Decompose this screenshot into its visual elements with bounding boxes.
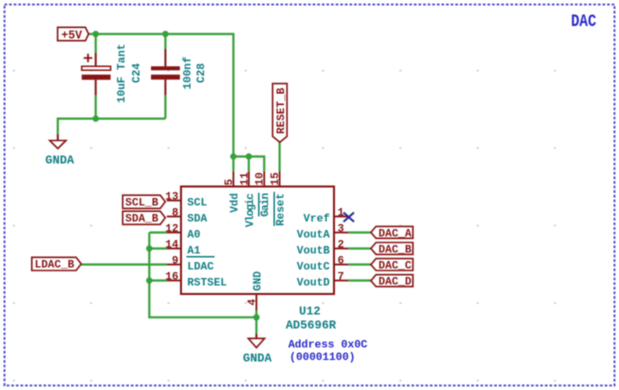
svg-text:12: 12 xyxy=(165,224,178,236)
svg-text:14: 14 xyxy=(165,240,179,252)
wire RESET_B to pin15 xyxy=(279,142,281,172)
svg-text:C24: C24 xyxy=(132,63,144,83)
svg-text:15: 15 xyxy=(270,172,282,186)
svg-text:A1: A1 xyxy=(187,246,201,258)
svg-text:16: 16 xyxy=(165,272,178,284)
svg-text:6: 6 xyxy=(338,256,345,268)
svg-text:SCL: SCL xyxy=(187,198,207,210)
capacitor C28 xyxy=(151,49,208,95)
svg-text:GNDA: GNDA xyxy=(45,154,75,168)
svg-text:Vlogic: Vlogic xyxy=(245,194,257,228)
svg-text:SDA: SDA xyxy=(187,214,207,226)
pin 11 Vlogic xyxy=(239,171,256,227)
grid dots xyxy=(13,70,556,382)
svg-text:4: 4 xyxy=(247,299,259,306)
pin 13 SCL xyxy=(165,192,207,210)
svg-text:VoutA: VoutA xyxy=(297,230,330,242)
ground GNDA bottom xyxy=(243,334,273,366)
wire LDAC_B to pin9 xyxy=(81,263,167,265)
svg-text:9: 9 xyxy=(172,256,179,268)
svg-text:DAC: DAC xyxy=(571,12,597,32)
svg-text:RESET_B: RESET_B xyxy=(276,87,288,134)
junction RSTSEL xyxy=(146,277,152,283)
wire ground rail xyxy=(58,119,166,135)
pin 15 Reset (active low) xyxy=(270,171,288,226)
pin 1 Vref xyxy=(303,208,348,226)
global label DAC_B xyxy=(371,243,413,257)
global label RESET_B xyxy=(273,84,288,143)
svg-text:(00001100): (00001100) xyxy=(289,352,355,364)
pin 5 Vdd xyxy=(224,171,241,213)
wire RSTSEL xyxy=(149,279,167,281)
wire VoutA to DAC_A xyxy=(348,231,371,233)
wire A0 xyxy=(149,231,167,233)
svg-text:13: 13 xyxy=(165,192,179,204)
svg-text:Address 0x0C: Address 0x0C xyxy=(288,340,368,352)
svg-text:GND: GND xyxy=(252,271,264,291)
svg-text:GNDA: GNDA xyxy=(243,352,273,366)
junction C28 top xyxy=(162,31,168,37)
svg-text:VoutB: VoutB xyxy=(297,246,330,258)
svg-text:C28: C28 xyxy=(196,63,208,83)
svg-text:AD5696R: AD5696R xyxy=(286,319,337,333)
svg-text:10: 10 xyxy=(255,172,267,185)
svg-text:8: 8 xyxy=(172,208,179,220)
junction GND pin4 xyxy=(253,314,259,320)
pin 8 SDA xyxy=(167,208,208,226)
pin 12 A0 xyxy=(165,224,200,242)
wire C24 bottom lead xyxy=(95,95,97,119)
pin 6 VoutC xyxy=(297,256,349,274)
svg-text:DAC_B: DAC_B xyxy=(379,244,412,256)
svg-text:Vdd: Vdd xyxy=(229,193,241,213)
svg-text:LDAC: LDAC xyxy=(187,262,214,274)
svg-text:VoutD: VoutD xyxy=(297,278,330,290)
global label DAC_D xyxy=(371,275,413,289)
wire top pins rail xyxy=(233,157,264,172)
svg-text:DAC_C: DAC_C xyxy=(379,261,412,273)
junction A1 xyxy=(146,245,152,251)
capacitor C24 xyxy=(82,44,144,103)
svg-text:LDAC_B: LDAC_B xyxy=(35,260,75,272)
svg-text:SCL_B: SCL_B xyxy=(125,198,158,210)
pin 4 GND xyxy=(247,271,265,310)
junction pin5 rail xyxy=(230,153,236,159)
svg-text:3: 3 xyxy=(338,224,345,236)
global label DAC_A xyxy=(371,226,413,240)
svg-text:Vref: Vref xyxy=(303,214,330,226)
power flag +5V xyxy=(58,27,89,42)
global label LDAC_B xyxy=(32,257,81,271)
global label SDA_B xyxy=(123,211,166,225)
pin 16 RSTSEL xyxy=(165,272,227,290)
svg-text:U12: U12 xyxy=(299,305,321,319)
svg-text:100nf: 100nf xyxy=(183,56,195,89)
wire C28 bottom lead xyxy=(164,95,166,119)
junction C24 bottom xyxy=(93,115,99,121)
svg-text:Gain: Gain xyxy=(260,193,272,216)
wire C28 top lead xyxy=(164,34,166,49)
ground GNDA left xyxy=(45,134,75,167)
pin 3 VoutA xyxy=(297,224,349,242)
pin 10 Gain (active low) xyxy=(255,171,273,217)
svg-text:VoutC: VoutC xyxy=(297,262,330,274)
svg-text:SDA_B: SDA_B xyxy=(125,214,158,226)
junction pin11 rail xyxy=(246,153,252,159)
svg-text:DAC_A: DAC_A xyxy=(379,228,412,240)
wire A0/A1/RSTSEL bus to GND xyxy=(149,233,256,318)
svg-text:A0: A0 xyxy=(187,230,200,242)
svg-text:10uF Tant: 10uF Tant xyxy=(117,44,129,103)
wire A1 xyxy=(149,247,167,249)
wire pin11 drop xyxy=(248,157,250,172)
wire GND pin4 to GNDA xyxy=(255,310,257,334)
junction +5V/C24 xyxy=(93,31,99,37)
pin 14 A1 xyxy=(165,240,201,258)
svg-text:11: 11 xyxy=(239,172,251,186)
svg-text:Reset: Reset xyxy=(276,193,288,226)
wire +5V rail to top pins xyxy=(89,34,234,171)
wire C24 top lead xyxy=(95,34,97,53)
wire VoutD to DAC_D xyxy=(348,279,371,281)
svg-text:RSTSEL: RSTSEL xyxy=(187,278,227,290)
no-connect X on pin 1 xyxy=(344,213,355,222)
pin 2 VoutB xyxy=(297,240,349,258)
svg-text:DAC_D: DAC_D xyxy=(379,277,412,289)
svg-text:7: 7 xyxy=(338,272,345,284)
global label DAC_C xyxy=(371,259,413,273)
svg-text:2: 2 xyxy=(338,240,345,252)
wire VoutC to DAC_C xyxy=(348,263,371,265)
global label SCL_B xyxy=(123,195,166,209)
IC U12 AD5696R body xyxy=(181,187,337,333)
pin 9 LDAC (active low) xyxy=(167,256,215,274)
wire VoutB to DAC_B xyxy=(348,247,371,249)
svg-text:+5V: +5V xyxy=(61,29,82,42)
svg-text:5: 5 xyxy=(224,179,236,186)
pin 7 VoutD xyxy=(297,272,349,290)
